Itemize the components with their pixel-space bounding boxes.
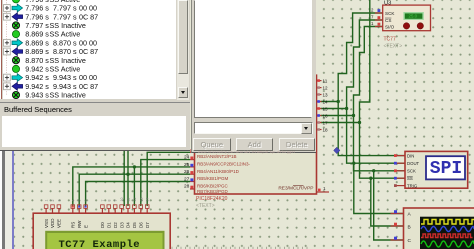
svg-text:12: 12 (133, 198, 137, 202)
svg-text:C: C (408, 238, 412, 244)
svg-text:7.796 s: 7.796 s (25, 4, 49, 13)
svg-text:1: 1 (45, 200, 49, 202)
svg-text:TC77: TC77 (384, 37, 396, 43)
svg-text:8.869 s: 8.869 s (25, 38, 49, 47)
svg-text:RB3/AN9/CCP2B/C12IN3-: RB3/AN9/CCP2B/C12IN3- (197, 162, 251, 167)
svg-text:TRIG: TRIG (407, 183, 418, 188)
svg-text:14: 14 (323, 100, 329, 105)
svg-text:<TEXT>: <TEXT> (384, 44, 403, 50)
svg-text:SS Inactive: SS Inactive (50, 21, 86, 30)
svg-text:SPI: SPI (430, 159, 462, 179)
svg-text:D5: D5 (132, 222, 137, 228)
svg-text:26: 26 (184, 169, 190, 175)
svg-text:D0: D0 (100, 222, 105, 228)
svg-text:9.943 s: 9.943 s (53, 73, 77, 82)
svg-text:VEE: VEE (57, 219, 62, 228)
svg-text:9.943 s: 9.943 s (53, 82, 77, 91)
svg-text:E: E (83, 225, 88, 228)
svg-text:7.797 s: 7.797 s (25, 21, 49, 30)
svg-text:D4: D4 (126, 222, 131, 228)
svg-text:24: 24 (184, 155, 190, 161)
svg-text:SS Inactive: SS Inactive (50, 56, 86, 65)
svg-text:4: 4 (71, 200, 75, 202)
svg-text:SS Active: SS Active (50, 65, 81, 74)
svg-text:SI/O: SI/O (385, 25, 395, 30)
svg-text:8.869 s: 8.869 s (25, 47, 49, 56)
svg-text:8.870 s: 8.870 s (25, 56, 49, 65)
svg-text:0C 87: 0C 87 (79, 12, 98, 21)
svg-text:RB4/AN11/KBI0/P1D: RB4/AN11/KBI0/P1D (197, 169, 240, 174)
svg-text:DIN: DIN (407, 153, 414, 158)
svg-text:14: 14 (146, 198, 150, 202)
svg-text:9.942 s: 9.942 s (25, 65, 49, 74)
svg-text:PIC18F24K20: PIC18F24K20 (196, 196, 228, 202)
svg-text:B: B (408, 225, 411, 231)
svg-text:13: 13 (139, 198, 143, 202)
svg-text:0C 87: 0C 87 (79, 82, 98, 91)
svg-text:13: 13 (323, 93, 329, 98)
svg-text:6: 6 (84, 200, 88, 202)
svg-text:VSS: VSS (44, 219, 49, 228)
svg-text:8.870 s: 8.870 s (53, 38, 77, 47)
svg-text:VDD: VDD (50, 218, 55, 228)
svg-text:CS: CS (385, 18, 391, 23)
svg-text:11: 11 (323, 79, 328, 84)
svg-text:11: 11 (127, 198, 131, 202)
svg-text:00 00: 00 00 (79, 4, 97, 13)
svg-text:SCK: SCK (407, 169, 416, 174)
svg-text:9.943 s: 9.943 s (25, 91, 49, 99)
svg-text:9: 9 (114, 200, 118, 202)
svg-text:18: 18 (323, 128, 329, 133)
svg-text:3: 3 (57, 200, 61, 202)
svg-text:10: 10 (120, 198, 124, 202)
svg-text:00 00: 00 00 (79, 38, 97, 47)
svg-text:8.869 s: 8.869 s (25, 30, 49, 39)
svg-text:SCK: SCK (385, 11, 395, 16)
svg-text:7.796 s: 7.796 s (25, 12, 49, 21)
svg-text:5: 5 (78, 200, 82, 202)
svg-text:RB5/KBI1/PGM: RB5/KBI1/PGM (197, 176, 229, 181)
svg-text:RB2/AN8/INT2/P1B: RB2/AN8/INT2/P1B (197, 154, 237, 159)
svg-text:25.0: 25.0 (409, 14, 418, 19)
svg-text:17: 17 (323, 121, 329, 126)
svg-text:12: 12 (323, 86, 329, 91)
svg-text:D6: D6 (139, 222, 144, 228)
svg-text:1: 1 (371, 21, 374, 26)
svg-text:2: 2 (371, 8, 374, 13)
svg-text:2: 2 (51, 200, 55, 202)
svg-text:7: 7 (101, 200, 105, 202)
svg-text:8.870 s: 8.870 s (53, 47, 77, 56)
svg-text:D7: D7 (145, 222, 150, 228)
svg-text:TC77 Example: TC77 Example (59, 239, 141, 249)
svg-text:RW: RW (77, 220, 82, 228)
svg-text:0C 87: 0C 87 (79, 47, 98, 56)
svg-text:D2: D2 (113, 222, 118, 228)
svg-text:27: 27 (184, 176, 190, 182)
svg-text:SS: SS (407, 176, 413, 181)
svg-text:00 00: 00 00 (79, 73, 97, 82)
svg-text:16: 16 (323, 114, 329, 119)
svg-text:D1: D1 (107, 222, 112, 228)
svg-text:DOUT: DOUT (407, 161, 420, 166)
svg-text:9.942 s: 9.942 s (25, 73, 49, 82)
svg-text:SS Active: SS Active (50, 30, 81, 39)
svg-text:D3: D3 (119, 222, 124, 228)
svg-text:RB6/KBI2/PGC: RB6/KBI2/PGC (197, 183, 229, 188)
svg-text:28: 28 (184, 184, 190, 190)
svg-text:25: 25 (184, 162, 190, 168)
svg-text:RE3/MCLR/VPP: RE3/MCLR/VPP (278, 186, 313, 192)
svg-text:1: 1 (323, 186, 326, 191)
svg-text:<TEXT>: <TEXT> (196, 203, 215, 209)
svg-text:7.797 s: 7.797 s (53, 12, 77, 21)
svg-text:7: 7 (371, 15, 374, 20)
svg-text:SS Inactive: SS Inactive (50, 91, 86, 99)
svg-text:RS: RS (71, 222, 76, 228)
svg-text:9.942 s: 9.942 s (25, 82, 49, 91)
svg-text:8: 8 (107, 200, 111, 202)
svg-text:15: 15 (323, 107, 329, 112)
svg-text:RB7/KBI3/PGD: RB7/KBI3/PGD (197, 189, 229, 194)
svg-text:7.797 s: 7.797 s (53, 4, 77, 13)
